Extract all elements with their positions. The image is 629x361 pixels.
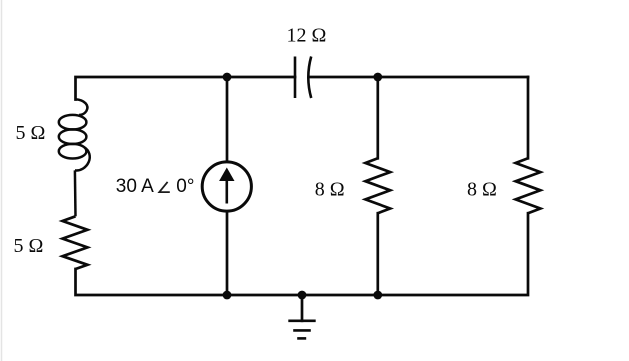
ground symbol	[288, 321, 315, 339]
capacitor C1 (12 ohm) left plate	[294, 57, 297, 99]
svg-text:8 Ω: 8 Ω	[467, 178, 497, 200]
svg-text:5 Ω: 5 Ω	[14, 235, 44, 257]
resistor R3 (8 ohm) zigzag	[516, 158, 541, 213]
svg-text:12 Ω: 12 Ω	[287, 25, 327, 47]
wire 8-ohm branch 1 top	[376, 77, 379, 158]
capacitor C1 curved right plate	[308, 57, 311, 99]
wire between inductor and resistor	[74, 170, 77, 216]
angle symbol	[159, 182, 170, 192]
wire current-source branch bottom	[226, 211, 229, 295]
current source I1 arrow	[226, 178, 229, 204]
node dot top current-source junction	[223, 73, 232, 82]
resistor R2 (8 ohm) zigzag	[365, 158, 390, 213]
node dot bottom current-source junction	[223, 291, 232, 300]
node dot top 8-ohm junction	[373, 73, 382, 82]
svg-text:0°: 0°	[176, 176, 194, 197]
resistor R1 (5 ohm) zigzag	[63, 216, 88, 269]
wire 8-ohm branch 1 bottom	[376, 213, 379, 295]
current source I1 circle	[202, 162, 251, 211]
node dot bottom 8-ohm junction	[373, 291, 382, 300]
svg-text:5 Ω: 5 Ω	[16, 122, 46, 144]
wire right branch top	[527, 77, 530, 158]
wire ground stem	[301, 295, 304, 321]
wire current-source branch top	[226, 77, 229, 162]
svg-text:30 A: 30 A	[116, 176, 154, 197]
wire top-left horizontal (node A to cap left)	[76, 77, 296, 100]
wire bottom horizontal	[76, 213, 529, 295]
inductor L1 (5 ohm)	[59, 99, 90, 170]
svg-text:8 Ω: 8 Ω	[315, 178, 345, 200]
wire top-right horizontal (cap right to top-right corner)	[310, 76, 529, 79]
node dot bottom ground junction	[298, 291, 307, 300]
page edge line	[1, 0, 3, 361]
